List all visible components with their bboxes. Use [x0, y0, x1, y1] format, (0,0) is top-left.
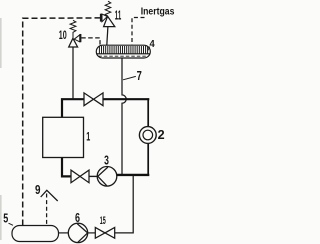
svg-text:7: 7 [137, 69, 142, 83]
svg-text:2: 2 [158, 127, 165, 142]
svg-text:10: 10 [59, 28, 67, 42]
svg-text:15: 15 [100, 215, 106, 227]
svg-text:11: 11 [115, 8, 121, 22]
svg-text:4: 4 [150, 39, 156, 50]
svg-text:3: 3 [104, 153, 109, 168]
svg-text:1: 1 [86, 132, 90, 144]
svg-text:9: 9 [35, 183, 41, 197]
svg-text:5: 5 [3, 212, 8, 226]
svg-text:Inertgas: Inertgas [141, 6, 175, 17]
svg-text:6: 6 [75, 210, 80, 225]
